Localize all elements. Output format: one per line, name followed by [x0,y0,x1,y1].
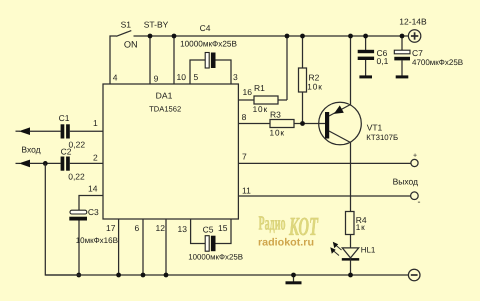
svg-text:1к: 1к [356,223,366,232]
wire pin14 to C3 [79,196,103,211]
svg-text:6: 6 [135,223,140,233]
input terminal 1 arrow [16,130,21,132]
svg-text:12: 12 [156,223,166,233]
svg-text:TDA1562: TDA1562 [149,104,181,113]
svg-text:3: 3 [233,72,238,82]
resistor R3 [238,123,270,125]
wire input2 to C2 [30,162,61,164]
transistor VT1 emitter [329,105,351,117]
svg-text:10к: 10к [253,105,268,114]
wire top rail [134,35,409,37]
svg-text:14: 14 [88,184,98,194]
transistor VT1 circle [319,102,362,145]
capacitor C4 bracket wires [190,60,205,84]
svg-text:11: 11 [242,186,251,196]
svg-text:radiokot.ru: radiokot.ru [258,237,314,249]
svg-text:9: 9 [154,74,159,84]
svg-text:10000мкФх25В: 10000мкФх25В [188,252,243,261]
LED HL1 [342,248,358,258]
wire R4 to LED [350,235,352,249]
svg-text:10000мкФх25В: 10000мкФх25В [180,39,237,48]
resistor R1 [238,99,254,101]
bottom rail wire [45,274,408,276]
output terminal - [411,192,419,200]
capacitor C5 bracket wires [191,219,206,244]
junction C7/rail [400,34,405,39]
svg-text:5: 5 [194,72,199,82]
svg-text:Вход: Вход [21,145,40,155]
svg-text:DA1: DA1 [156,91,173,101]
junction pin9/rail [148,34,153,39]
junction pin10/rail [172,34,177,39]
capacitor C6 [365,36,367,50]
svg-text:10мкФх16В: 10мкФх16В [76,236,118,245]
svg-text:C1: C1 [59,113,70,123]
capacitor C7 (electrolytic) [401,36,403,50]
wire LED to rail [350,257,352,275]
wire pin17 vertical [118,219,120,275]
junction R1/rail [285,34,290,39]
junction input2/ground branch [43,161,48,166]
svg-text:C2: C2 [61,147,72,157]
wire R1 to rail [286,36,288,100]
svg-text:13: 13 [178,224,188,234]
wire emitter to rail [350,36,352,105]
svg-text:10: 10 [177,72,187,82]
terminal -12V circle [408,269,420,281]
svg-text:C3: C3 [88,207,99,217]
capacitor C3 plates (electrolytic) [70,210,87,214]
svg-text:4: 4 [113,72,118,82]
LED emission arrows [333,245,342,256]
transistor VT1 collector [329,131,351,143]
capacitor C1 plates [61,124,65,138]
junction pin6/rail [141,273,146,278]
svg-text:R2: R2 [309,73,320,83]
wire pin11 to output- [238,195,410,197]
svg-text:10к: 10к [307,83,322,92]
svg-text:R1: R1 [254,83,265,93]
svg-text:+: + [413,153,417,160]
junction ground/rail [291,273,296,278]
wire pin4 vertical [110,36,117,84]
svg-text:12-14В: 12-14В [399,17,427,27]
wire C1 to pin1 [70,130,103,132]
input terminal 2 arrow [16,162,21,164]
junction R2/rail [300,34,305,39]
junction C3/bottom rail [76,273,81,278]
junction R2/R3 node [300,121,305,126]
IC U1 DA1 TDA1562 body [103,84,238,219]
wire C2 to pin2 [70,162,103,164]
junction pin17/rail [116,273,121,278]
wire pin9 vertical [149,36,151,84]
resistor R2 [302,36,304,68]
wire pin10 vertical [173,36,175,84]
svg-text:17: 17 [106,223,116,233]
resistor R4 [346,212,355,235]
svg-text:4700мкФх25В: 4700мкФх25В [412,58,463,67]
wire pin7 to output+ [238,162,411,164]
svg-text:1: 1 [93,118,98,128]
junction LED/rail [348,273,353,278]
svg-text:C7: C7 [412,48,423,58]
junction emitter/rail [348,34,353,39]
ground bar C6 [359,75,372,78]
svg-text:15: 15 [218,223,228,233]
svg-text:ST-BY: ST-BY [144,20,169,30]
svg-text:C5: C5 [203,225,214,235]
capacitor C2 plates [61,157,65,171]
watermark Радио КОТ [258,212,319,249]
switch S1 blade [116,31,131,37]
svg-text:10к: 10к [270,129,285,138]
junction pin12/rail [164,273,169,278]
terminal +12V circle [408,30,420,42]
svg-text:ON: ON [124,39,138,49]
ground symbol on bottom rail [293,275,295,282]
svg-text:8: 8 [242,112,247,122]
svg-text:7: 7 [242,152,247,162]
ground bar C7 [396,75,409,78]
svg-text:2: 2 [93,153,98,163]
capacitor C5 plates [205,236,209,252]
transistor VT1 base bar [325,112,329,139]
svg-text:Выход: Выход [393,177,418,187]
svg-text:HL1: HL1 [361,245,376,254]
svg-text:-: - [418,197,421,207]
svg-text:0,1: 0,1 [377,56,389,66]
output terminal + [411,159,418,166]
wire pin12 vertical [165,219,167,275]
svg-text:16: 16 [243,87,253,97]
wire C3 to bottom rail [78,221,80,276]
wire pin6 vertical [142,219,144,275]
svg-text:R3: R3 [270,110,281,120]
wire ground drop from input2 [45,163,78,275]
svg-text:C4: C4 [200,23,211,33]
wire collector down [350,142,352,212]
svg-text:КТ3107Б: КТ3107Б [366,133,398,142]
svg-text:0,22: 0,22 [68,172,85,182]
svg-text:Радио: Радио [259,213,286,235]
capacitor C4 plates [205,53,209,69]
wire input1 to C1 [30,130,61,132]
svg-text:S1: S1 [121,20,132,30]
junction C6/rail [363,34,368,39]
svg-text:VT1: VT1 [367,122,383,132]
